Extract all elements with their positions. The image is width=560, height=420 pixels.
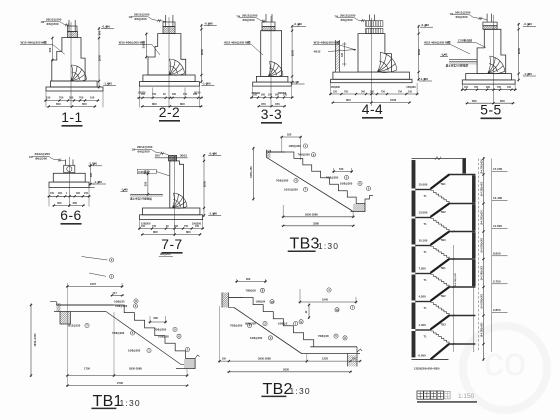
svg-text:TB3: TB3 (441, 323, 447, 327)
section 2-2 bottom elevation flag (202, 85, 215, 87)
section 5-5 base slab (462, 80, 515, 84)
svg-text:300: 300 (69, 95, 74, 99)
TB3 bottom beam (351, 204, 366, 212)
svg-text:7Φ8@200: 7Φ8@200 (276, 179, 289, 183)
schematic down flight storey 1 (431, 191, 449, 204)
svg-text:-0.450: -0.450 (421, 23, 430, 27)
svg-text:300: 300 (275, 94, 280, 97)
section 3-3 column outline (261, 31, 282, 77)
TB3 top dim (280, 136, 302, 138)
section 5-5 centerline (493, 15, 495, 104)
svg-text:10: 10 (270, 300, 274, 304)
svg-text:TB1: TB1 (441, 266, 447, 270)
svg-text:Φ8@200: Φ8@200 (160, 252, 171, 256)
section 4-4 left wall detail (335, 40, 337, 72)
svg-text:1650+450: 1650+450 (249, 166, 253, 178)
svg-text:-0.450: -0.450 (294, 22, 303, 26)
TB2 bottom landing (310, 346, 357, 348)
TB1 landing slab (57, 304, 115, 306)
svg-text:1Φ8@200: 1Φ8@200 (128, 349, 141, 353)
section 4-4 arrow leader (328, 50, 356, 52)
svg-text:7Φ8@200: 7Φ8@200 (230, 324, 243, 328)
section 4-4 right dim (418, 25, 420, 81)
svg-text:14.400: 14.400 (493, 196, 503, 200)
schematic bottom flight (431, 344, 450, 359)
section 5-5 top elevation flag (523, 25, 536, 27)
svg-text:C25毛石砼: C25毛石砼 (458, 38, 472, 43)
TB2 rebar callout f (343, 336, 347, 340)
svg-text:2Φ12@200: 2Φ12@200 (134, 13, 150, 17)
TB2 steps (243, 298, 314, 347)
schematic top right bar (463, 159, 466, 174)
TB1 top leaders and callouts (82, 257, 108, 261)
svg-text:TB2: TB2 (441, 210, 447, 214)
svg-text:150: 150 (90, 95, 95, 99)
TB1 mid dim 800 (149, 321, 168, 323)
svg-text:15.000: 15.000 (419, 182, 428, 186)
TB1 top dim 417 (111, 294, 124, 296)
section 7-7 footing (142, 208, 200, 215)
svg-text:2930-3080: 2930-3080 (305, 213, 318, 217)
section 1-1 right dim (98, 27, 100, 88)
svg-text:1Φ8@20: 1Φ8@20 (158, 335, 169, 339)
svg-text:350: 350 (73, 201, 78, 205)
svg-text:800: 800 (186, 230, 191, 234)
svg-text:2600: 2600 (291, 49, 295, 56)
schematic down flight storey 3 (431, 247, 449, 260)
section 4-4 rubble fan (380, 52, 397, 70)
svg-text:Φ6@200: Φ6@200 (243, 18, 255, 22)
svg-text:(9-4.780)×300: (9-4.780)×300 (480, 159, 483, 174)
svg-text:Φ6@200: Φ6@200 (35, 157, 47, 161)
svg-text:W10 4Φ6@200 M砌: W10 4Φ6@200 M砌 (21, 39, 47, 44)
section 1-1 footing (51, 81, 98, 87)
svg-text:7Φ8@20: 7Φ8@20 (246, 288, 257, 292)
section 1-1 pedestal outline (52, 38, 85, 82)
svg-text:TB3: TB3 (290, 236, 320, 253)
section 6-6 right elevation flag 1 (88, 165, 102, 167)
TB1 left vertical dim (30, 304, 32, 378)
svg-text:7Φ8@200: 7Φ8@200 (154, 328, 167, 332)
schematic top line (412, 158, 467, 160)
section 7-7 ground line (130, 193, 163, 195)
svg-text:2600: 2600 (200, 48, 204, 55)
section 5-5 rubble fan (490, 56, 505, 71)
svg-text:800: 800 (152, 102, 157, 106)
section 3-3 rubble fan (270, 61, 284, 75)
TB2 right break (357, 349, 362, 352)
watermark (463, 326, 547, 410)
svg-text:2600: 2600 (517, 47, 521, 54)
section 5-5 wall stub (486, 14, 488, 23)
section 1-1 base slab (46, 87, 103, 91)
schematic up flight storey 5 (431, 287, 450, 301)
schematic right dim line 1 (483, 157, 485, 361)
TB1 slab soffit (106, 312, 181, 365)
section 2-2 wall stub (165, 15, 167, 27)
svg-text:520: 520 (287, 133, 292, 137)
section 4-4 centerline (370, 18, 372, 106)
section 6-6 right dim (90, 164, 92, 185)
svg-text:7Φ8@200: 7Φ8@200 (298, 153, 311, 157)
svg-text:7Φ8@200: 7Φ8@200 (115, 304, 128, 308)
section 2-2 right dim (200, 24, 202, 83)
section 4-4 footing (333, 72, 410, 79)
stair schematic (412, 157, 508, 402)
schematic title glyph 2 (424, 391, 430, 399)
svg-text:150|300: 150|300 (406, 85, 416, 89)
section 4-4 bottom elevation flag (419, 80, 432, 82)
svg-text:700: 700 (59, 95, 64, 99)
section 3-3 base slab (253, 82, 292, 86)
TB3 steps (285, 152, 356, 204)
section 3-3 dpc box (262, 26, 275, 30)
svg-text:-0.450: -0.450 (209, 151, 218, 155)
section 1-1 detail (20, 18, 160, 126)
svg-text:300: 300 (486, 86, 491, 89)
svg-text:co: co (484, 340, 526, 384)
section 6-6 centerline (68, 157, 70, 207)
section 2-2 base slab (139, 82, 199, 87)
svg-text:1:30: 1:30 (318, 241, 339, 251)
section 4-4 brick stub band 1 (366, 21, 383, 27)
svg-text:Φ8@200: Φ8@200 (245, 322, 256, 326)
svg-text:W10 4Φ6@200 M砌: W10 4Φ6@200 M砌 (119, 39, 145, 44)
section 6-6 right elevation flag 2 (93, 183, 106, 185)
svg-text:2930-3080: 2930-3080 (129, 367, 142, 371)
svg-text:1Φ8@200: 1Φ8@200 (250, 336, 263, 340)
svg-text:150|300: 150|300 (331, 85, 341, 89)
svg-text:600: 600 (246, 277, 251, 281)
schematic up flight storey 1 (431, 175, 450, 189)
schematic title glyph 1 (417, 391, 423, 399)
svg-text:150: 150 (333, 90, 338, 93)
svg-text:150: 150 (141, 225, 146, 228)
schematic right wall (472, 176, 475, 203)
svg-text:-1.45: -1.45 (121, 187, 128, 191)
section 3-3 footing (256, 76, 288, 82)
svg-text:1810+1450: 1810+1450 (33, 333, 37, 347)
svg-text:-0.050: -0.050 (418, 354, 427, 358)
section 3-3 detail (237, 13, 357, 123)
TB3 bottom dim 1 (282, 216, 355, 218)
svg-text:1-1: 1-1 (61, 110, 82, 125)
svg-text:5.750: 5.750 (493, 280, 501, 284)
section 4-4 stub lines (369, 15, 371, 21)
svg-text:150: 150 (193, 93, 198, 96)
section 6-6 stub box with circle (64, 165, 75, 172)
svg-text:150: 150 (253, 94, 258, 97)
svg-text:650: 650 (82, 102, 87, 106)
svg-text:1Φ8@30: 1Φ8@30 (114, 300, 125, 304)
svg-text:2Φ12@200: 2Φ12@200 (35, 152, 51, 156)
svg-text:3Φ12: 3Φ12 (180, 154, 187, 158)
TB2 callout top (327, 288, 331, 292)
schematic title glyph 4 (437, 391, 443, 399)
TB2 top wall (221, 293, 223, 308)
svg-text:650: 650 (56, 102, 61, 106)
svg-text:7.200: 7.200 (419, 266, 427, 270)
stair section TB1 (30, 252, 200, 410)
TB3 left vertical dim (252, 147, 254, 201)
schematic down flight storey 2 (431, 219, 449, 232)
section 7-7 top elevation flag (208, 155, 221, 157)
svg-text:120: 120 (341, 52, 344, 57)
TB3 top landing (267, 151, 286, 153)
schematic extension line (478, 159, 480, 353)
svg-text:Φ6@200: Φ6@200 (135, 17, 147, 21)
section 1-1 wall stub (68, 20, 70, 32)
svg-text:-1.00: -1.00 (292, 80, 299, 84)
TB1 bottom beam (176, 359, 195, 369)
TB3 mid dim 520 (332, 171, 353, 173)
svg-text:1Φ10@200: 1Φ10@200 (284, 188, 298, 192)
svg-text:(9-4.780)×300: (9-4.780)×300 (480, 210, 483, 225)
section 6-6 wall stub (64, 160, 66, 166)
section 7-7 bottom elevation flag (208, 215, 221, 217)
TB1 elevation tick right (159, 256, 173, 258)
TB2 mini vertical dim (308, 304, 310, 320)
svg-text:(9-4.780)×300: (9-4.780)×300 (454, 272, 457, 287)
svg-text:Φ6@200: Φ6@200 (341, 18, 353, 22)
TB1 right break (195, 355, 199, 359)
section 6-6 footing ledge (89, 183, 95, 185)
section 2-2 pedestal outline (148, 34, 186, 75)
svg-text:800: 800 (154, 316, 159, 320)
svg-text:W10 4Φ6@200 M砌: W10 4Φ6@200 M砌 (424, 39, 450, 44)
section 3-3 top elevation flag (293, 25, 306, 27)
svg-text:4-4: 4-4 (362, 102, 383, 117)
svg-text:150: 150 (84, 192, 89, 195)
section 7-7 dark stub box (168, 155, 176, 161)
svg-text:8.650: 8.650 (493, 252, 501, 256)
svg-text:TB1: TB1 (93, 393, 123, 410)
svg-text:700: 700 (184, 225, 189, 228)
svg-text:1:30: 1:30 (290, 386, 311, 396)
section 1-1 centerline (70, 22, 72, 108)
schematic up flight storey 3 (431, 232, 450, 245)
section 7-7 left elevation flag (121, 191, 128, 193)
TB2 bottom dim 2 (227, 371, 352, 373)
TB1 top dim 1637 (66, 285, 124, 287)
svg-text:4Φ12: 4Φ12 (314, 50, 321, 54)
svg-text:2930-3080: 2930-3080 (258, 357, 271, 361)
svg-text:150: 150 (141, 93, 146, 96)
svg-text:300: 300 (76, 192, 81, 195)
svg-text:300: 300 (172, 93, 177, 96)
svg-text:1.400: 1.400 (419, 323, 427, 327)
svg-text:-0.450: -0.450 (523, 22, 532, 26)
svg-text:2Φ12@200: 2Φ12@200 (340, 13, 356, 17)
TB1 wall stub below landing (60, 312, 71, 325)
svg-text:300: 300 (361, 90, 366, 93)
svg-text:-1.45: -1.45 (441, 52, 448, 56)
svg-text:-0.450: -0.450 (204, 21, 213, 25)
svg-text:5-5: 5-5 (480, 103, 501, 118)
section 3-3 bottom elevation flag (292, 83, 305, 85)
TB2 bottom dim 1 (218, 360, 361, 362)
section 6-6 detail (29, 152, 106, 224)
section 2-2 top elevation flag (204, 25, 217, 27)
section 4-4 top elevation flag (420, 26, 433, 28)
schematic down flight storey 4 (431, 275, 449, 288)
section 5-5 footing (466, 74, 512, 80)
svg-text:600: 600 (98, 30, 102, 35)
svg-text:7-7: 7-7 (161, 237, 182, 252)
svg-text:1500: 1500 (390, 98, 397, 102)
section 5-5 right dim (518, 23, 520, 82)
svg-text:-0.450: -0.450 (102, 24, 111, 28)
section 7-7 centerline (174, 156, 176, 236)
schematic title glyph 5 light (444, 391, 450, 399)
svg-text:-1.450: -1.450 (209, 211, 218, 215)
svg-text:13: 13 (335, 308, 339, 312)
svg-text:TB3: TB3 (441, 238, 447, 242)
section 5-5 dpc box (483, 26, 497, 30)
svg-text:700: 700 (474, 86, 479, 89)
svg-text:-1.450: -1.450 (202, 81, 211, 85)
svg-text:800: 800 (180, 102, 185, 106)
svg-text:7Φ8@20: 7Φ8@20 (318, 334, 329, 338)
svg-text:1750: 1750 (84, 367, 90, 371)
svg-text:Φ12@150: Φ12@150 (68, 324, 81, 328)
section 2-2 rubble fan (170, 59, 185, 73)
TB3 rebar callout 7 (366, 186, 370, 190)
section 5-5 column outline (477, 29, 506, 73)
section 1-1 left dim (51, 37, 53, 62)
svg-text:2700: 2700 (117, 381, 123, 385)
schematic down flight storey 6 (431, 331, 449, 344)
svg-text:417: 417 (113, 291, 118, 295)
svg-text:(9-4.780)×300: (9-4.780)×300 (480, 265, 483, 280)
schematic right dim line 2 (491, 159, 493, 353)
svg-text:13.000: 13.000 (419, 210, 428, 214)
schematic title underline (417, 401, 477, 403)
svg-text:2Φ12@200: 2Φ12@200 (46, 18, 62, 22)
stair section TB2 (218, 277, 362, 398)
TB2 dim 1640 (299, 301, 358, 303)
svg-text:150: 150 (268, 94, 273, 97)
svg-text:素土夯实100厚垫层: 素土夯实100厚垫层 (445, 64, 469, 68)
svg-text:-1.450: -1.450 (523, 72, 532, 76)
TB2 slab soffit (229, 307, 235, 309)
section 3-3 right dim (291, 25, 293, 84)
svg-text:素土夯实100厚垫层: 素土夯实100厚垫层 (130, 197, 152, 201)
section 2-2 centerline (168, 17, 170, 108)
svg-text:2.850: 2.850 (493, 308, 501, 312)
svg-text:17.200: 17.200 (493, 167, 503, 171)
stair section TB3 (249, 133, 373, 253)
section 6-6 pedestal (53, 173, 85, 182)
section 1-1 top elevation flag (101, 28, 114, 30)
svg-text:150: 150 (195, 225, 200, 228)
section 7-7 detail (121, 145, 222, 253)
svg-text:1Φ8@Φ: 1Φ8@Φ (256, 300, 267, 304)
svg-text:650: 650 (472, 99, 477, 103)
schematic title glyph 3 (430, 391, 436, 399)
svg-text:2Φ12@200: 2Φ12@200 (242, 13, 258, 17)
section 1-1 dpc box (68, 32, 78, 38)
svg-text:150: 150 (46, 95, 51, 99)
section 5-5 ground line with hatch (449, 58, 477, 60)
section 3-3 wall stub (265, 14, 267, 22)
section 2-2 left dim (145, 33, 147, 59)
svg-text:300: 300 (174, 225, 179, 228)
svg-text:150: 150 (50, 192, 55, 195)
svg-text:1Φ8@200: 1Φ8@200 (340, 182, 353, 186)
schematic down flight storey 5 (431, 303, 449, 316)
svg-text:(9-4.780)×300: (9-4.780)×300 (480, 237, 483, 252)
section 7-7 base slab (140, 215, 203, 220)
svg-text:300: 300 (58, 192, 63, 195)
schematic right wall lower line (473, 287, 475, 352)
schematic ground line (412, 358, 449, 360)
TB3 slab soffit (267, 158, 352, 211)
svg-text:900: 900 (346, 98, 351, 102)
svg-text:800: 800 (153, 230, 158, 234)
schematic inner vertical dim (453, 245, 455, 352)
svg-text:2Φ12@200: 2Φ12@200 (455, 10, 471, 14)
svg-text:400: 400 (90, 172, 93, 177)
TB1 bottom dim 1 (66, 375, 189, 377)
svg-text:750: 750 (381, 90, 386, 93)
section 2-2 dpc box (163, 27, 175, 34)
schematic landing slabs (449, 174, 476, 176)
svg-text:(9-4.780)×300: (9-4.780)×300 (480, 181, 483, 196)
schematic floor slabs (415, 189, 431, 191)
section 2-2 detail (129, 13, 264, 121)
svg-text:10.100: 10.100 (419, 238, 428, 242)
svg-text:1:30: 1:30 (120, 398, 141, 408)
svg-text:370: 370 (261, 102, 266, 106)
section 4-4 detail (314, 13, 471, 118)
section 3-3 centerline (270, 16, 272, 106)
TB3 bottom dim 2 (282, 225, 355, 227)
svg-text:7Φ8@200: 7Φ8@200 (326, 176, 339, 180)
svg-text:150: 150 (408, 90, 413, 93)
section 7-7 column outline (170, 161, 184, 208)
section 5-5 left elevation flag (440, 56, 448, 58)
svg-text:150: 150 (507, 86, 512, 89)
svg-text:350: 350 (143, 181, 147, 186)
svg-text:-1.450: -1.450 (103, 82, 112, 86)
schematic top break symbol (435, 157, 441, 161)
section 7-7 left dim (147, 172, 149, 196)
TB1 steps (114, 305, 185, 359)
svg-text:(9-4.780)×300: (9-4.780)×300 (480, 293, 483, 308)
section 1-1 rubble fan (72, 65, 87, 79)
svg-text:2Φ12@200: 2Φ12@200 (137, 145, 153, 149)
section 5-5 bottom elevation flag (523, 75, 536, 77)
section 7-7 right dim (203, 154, 205, 217)
svg-text:350: 350 (142, 43, 146, 48)
section 1-1 bottom elevation flag (103, 85, 116, 87)
svg-text:11.500: 11.500 (493, 224, 502, 228)
TB2 top dim 600 (235, 280, 267, 282)
section 6-6 footing (49, 182, 89, 187)
svg-text:Φ6@200: Φ6@200 (456, 15, 468, 19)
svg-text:370: 370 (275, 102, 280, 106)
svg-text:300: 300 (261, 94, 266, 97)
svg-text:1Φ8@200: 1Φ8@200 (289, 144, 302, 148)
svg-text:TB2: TB2 (441, 294, 447, 298)
svg-text:1637: 1637 (90, 282, 96, 286)
svg-text:W10 4Φ6@200 M砌: W10 4Φ6@200 M砌 (314, 39, 340, 44)
svg-text:4.200: 4.200 (419, 294, 427, 298)
svg-text:700: 700 (79, 95, 84, 99)
svg-text:13350|350×300=2850: 13350|350×300=2850 (414, 367, 440, 371)
schematic up flight storey 4 (431, 259, 450, 273)
